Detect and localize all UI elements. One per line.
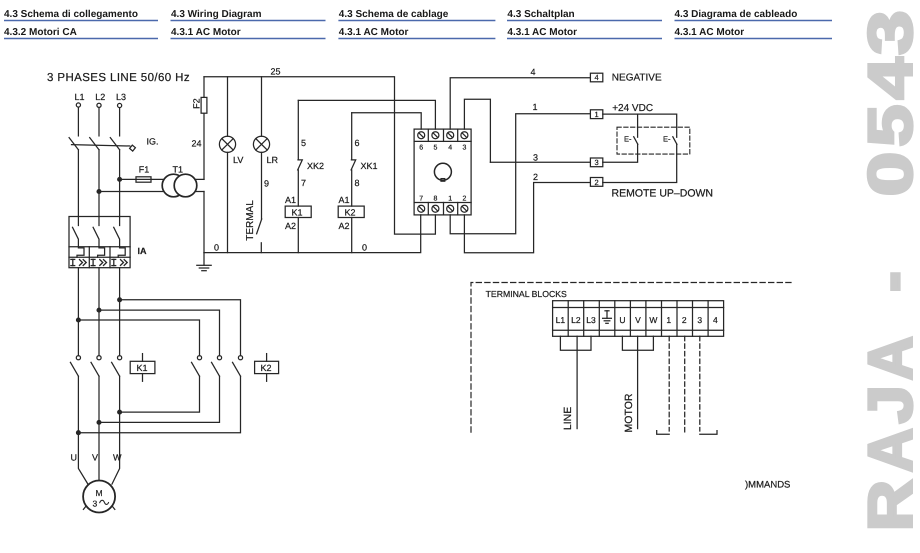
svg-text:IG.: IG. (147, 137, 159, 147)
svg-text:4: 4 (448, 144, 452, 151)
motor feet ticks (83, 506, 114, 510)
terminal blocks dashed box (471, 283, 791, 434)
svg-text:K2: K2 (261, 363, 272, 373)
relay socket center circle (434, 163, 451, 180)
node L3 fuse tap (118, 178, 122, 182)
svg-text:NEGATIVE: NEGATIVE (612, 72, 662, 83)
svg-text:2: 2 (462, 196, 466, 203)
wire L1 drop (77, 107, 79, 136)
lamp LR (253, 136, 269, 152)
contactor K2 box (255, 354, 279, 382)
header column 2 titles (171, 9, 262, 38)
wire coil K2 A2 to 0 bus (351, 218, 353, 253)
wire L3 to IA (119, 150, 121, 217)
wire 5 K1 branch upper (297, 100, 299, 159)
wire +24 to E switches (603, 114, 677, 137)
svg-text:8: 8 (355, 178, 360, 188)
svg-text:E-: E- (624, 135, 632, 144)
svg-text:V: V (92, 452, 98, 462)
svg-text:F2: F2 (192, 98, 202, 109)
motor M circle (83, 481, 115, 513)
fuse F2 body (201, 97, 207, 113)
terminal strip bottom band line (553, 329, 724, 331)
node feeder L3 (118, 298, 122, 302)
relay socket top pin numbers (419, 144, 466, 151)
wire K2 branch top (352, 113, 422, 129)
wire L3 tap to transformer primary (120, 178, 204, 180)
breaker IA magnetic trip symbols (71, 259, 127, 265)
svg-text:LV: LV (233, 155, 243, 165)
svg-text:6: 6 (355, 138, 360, 148)
svg-text:4.3.1 AC Motor: 4.3.1 AC Motor (339, 27, 409, 38)
svg-text:L3: L3 (586, 315, 596, 325)
svg-text:K1: K1 (137, 363, 148, 373)
svg-text:XK1: XK1 (361, 161, 378, 171)
svg-text:1: 1 (666, 315, 671, 325)
switch IG handle flag (130, 145, 136, 151)
svg-text:A1: A1 (285, 195, 296, 205)
contactor K2 pole contacts (192, 356, 243, 377)
svg-text:U: U (71, 452, 78, 462)
relay socket top strip line (414, 140, 471, 142)
svg-text:K2: K2 (345, 207, 356, 217)
terminal strip top band line (553, 307, 724, 309)
wire 8 XK1 to coil K2 (351, 170, 353, 206)
motor squiggle (100, 500, 109, 504)
SECTION: labels (47, 67, 790, 509)
wire L2 to IA (98, 150, 100, 217)
wire E2 to box 2 (603, 144, 677, 182)
wire L1 to IA (77, 150, 79, 217)
ground symbol (197, 253, 211, 271)
switch IG pole 2 blade (90, 138, 99, 150)
breaker IA pole 3 (114, 217, 126, 258)
wire V to motor (98, 376, 100, 480)
node feeder L2 (97, 308, 101, 312)
svg-text:4: 4 (531, 67, 536, 77)
svg-text:4: 4 (857, 57, 920, 100)
svg-text:4.3.1 AC Motor: 4.3.1 AC Motor (675, 27, 745, 38)
wire 7 XK2 to coil K1 (297, 170, 299, 206)
terminal L3 circle (118, 103, 122, 107)
svg-text:0: 0 (857, 152, 920, 196)
svg-text:M: M (96, 488, 103, 498)
svg-text:A1: A1 (339, 195, 350, 205)
transformer T1 secondary winding (174, 174, 197, 197)
wire TERMAL to 0 bus (260, 243, 262, 253)
box terminal 2 (590, 178, 602, 187)
relay socket outline (414, 129, 471, 215)
svg-text:V: V (635, 315, 641, 325)
svg-text:R: R (857, 480, 920, 531)
header column 5 underlines (675, 21, 833, 39)
contactor K1 pole contacts (70, 356, 121, 377)
breaker IA pole 1 (73, 217, 85, 258)
node W return (118, 410, 122, 414)
lamp LR riser top (261, 77, 263, 136)
relay socket top screws (418, 132, 468, 139)
svg-text:3: 3 (697, 315, 702, 325)
breaker IA row line 1 (69, 246, 130, 248)
wire feeder L3 to K2 pole c (120, 300, 241, 356)
wire IA pole3 down (119, 268, 121, 356)
wire feeder L1 to K2 pole a (78, 320, 199, 356)
svg-text:MOTOR: MOTOR (623, 393, 635, 432)
wire terminal 2 to box 2 (464, 183, 590, 253)
svg-text:A: A (857, 336, 920, 380)
svg-text:4.3 Diagrama de cableado: 4.3 Diagrama de cableado (675, 9, 798, 20)
svg-text:)MMANDS: )MMANDS (745, 480, 790, 491)
svg-text:T1: T1 (173, 165, 184, 175)
svg-text:24: 24 (192, 139, 202, 149)
wire 3 to box 3 (490, 161, 590, 163)
svg-text:XK2: XK2 (307, 161, 324, 171)
svg-text:IA: IA (138, 246, 148, 256)
wire 6 K2 branch upper (351, 113, 353, 160)
svg-text:L2: L2 (95, 92, 105, 102)
svg-text:0: 0 (362, 243, 367, 253)
svg-text:2: 2 (682, 315, 687, 325)
wire 0 bus to terminal 7 (204, 215, 421, 253)
header column 1 titles (4, 9, 138, 38)
svg-text:K1: K1 (292, 207, 303, 217)
box terminal 4 (590, 73, 602, 82)
svg-text:1: 1 (448, 196, 452, 203)
contactor K1 box (130, 354, 155, 382)
svg-text:E-: E- (663, 135, 671, 144)
SECTION: header (4, 9, 832, 38)
header column 1 underlines (4, 21, 158, 39)
svg-text:3: 3 (462, 144, 466, 151)
svg-text:4.3.1 AC Motor: 4.3.1 AC Motor (171, 27, 241, 38)
wire L2 drop (98, 108, 100, 136)
svg-text:LINE: LINE (562, 407, 574, 430)
fuse F1 (136, 177, 151, 182)
svg-text:3 PHASES LINE 50/60 Hz: 3 PHASES LINE 50/60 Hz (47, 72, 190, 84)
svg-text:L2: L2 (571, 315, 581, 325)
svg-text:3: 3 (857, 10, 920, 54)
relay socket bottom strip dividers (428, 203, 457, 215)
lamp LV riser bottom (227, 152, 229, 252)
relay socket center notch (441, 179, 445, 182)
switch IG link bar (72, 145, 130, 146)
svg-text:J: J (857, 385, 920, 424)
svg-text:8: 8 (433, 196, 437, 203)
node U return (77, 431, 81, 435)
svg-text:L1: L1 (556, 315, 566, 325)
header column 5 titles (675, 9, 798, 38)
wire K2 pole a return to W (120, 376, 200, 412)
node V return (97, 421, 101, 425)
svg-text:4.3 Schema di collegamento: 4.3 Schema di collegamento (4, 9, 138, 20)
svg-text:0: 0 (214, 243, 219, 253)
cable hook left (657, 431, 670, 435)
svg-text:TERMAL: TERMAL (245, 200, 256, 241)
SECTION: wires (69, 73, 791, 512)
svg-text:7: 7 (419, 196, 423, 203)
motor-side cable bracket (622, 336, 653, 350)
terminal strip earth glyph (603, 311, 612, 324)
dashed cable terminal 3 (699, 336, 701, 431)
header column 4 titles (507, 9, 577, 38)
svg-text:+24 VDC: +24 VDC (612, 103, 653, 114)
header column 3 underlines (338, 21, 495, 39)
svg-text:4.3.2 Motori CA: 4.3.2 Motori CA (4, 27, 77, 38)
terminal strip dividers (568, 301, 708, 337)
switch IG pole 1 blade (69, 138, 78, 150)
svg-text:5: 5 (433, 144, 437, 151)
wire K2 pole b return to V (99, 376, 220, 422)
svg-text:25: 25 (271, 67, 281, 77)
box terminal 1 (590, 110, 602, 119)
svg-text:LR: LR (267, 155, 279, 165)
svg-text:5: 5 (301, 138, 306, 148)
svg-text:6: 6 (419, 144, 423, 151)
wire K1 branch top (298, 100, 435, 129)
svg-text:9: 9 (264, 179, 269, 189)
wire K2 pole c return to U (78, 376, 240, 433)
svg-text:F1: F1 (139, 165, 150, 175)
wire U to motor (78, 376, 88, 484)
breaker IA cell dividers (89, 247, 110, 268)
header column 4 underlines (507, 21, 662, 39)
wire IA pole2 down (98, 268, 100, 356)
wire terminal 3 riser (464, 99, 490, 162)
dashed cable terminal 1 (668, 336, 670, 431)
wire LR to TERMAL switch (261, 152, 263, 219)
wire 24 riser with fuse F2 (203, 77, 205, 180)
svg-text:L1: L1 (75, 92, 85, 102)
breaker IA pole 2 (93, 217, 105, 258)
box terminal 3 (590, 158, 602, 167)
svg-text:4.3.1 AC Motor: 4.3.1 AC Motor (507, 27, 577, 38)
switch E1 blade (634, 137, 638, 145)
svg-text:4.3 Wiring Diagram: 4.3 Wiring Diagram (171, 9, 262, 20)
wire transformer bottom to 0 bus (203, 192, 205, 253)
wire L3 drop (119, 108, 121, 136)
wire feeder L2 to K2 pole b (99, 310, 220, 356)
line-side cable bracket (560, 336, 591, 350)
wire terminal 1 to +24 VDC (450, 114, 590, 234)
MOTOR cable (637, 336, 639, 428)
svg-text:7: 7 (301, 178, 306, 188)
svg-text:3: 3 (533, 152, 538, 162)
svg-text:4: 4 (713, 315, 718, 325)
svg-text:TERMINAL BLOCKS: TERMINAL BLOCKS (486, 289, 567, 299)
svg-text:4.3 Schaltplan: 4.3 Schaltplan (507, 9, 574, 20)
svg-text:4: 4 (595, 73, 599, 82)
svg-text:U: U (619, 315, 625, 325)
breaker IA row line 2 (69, 256, 130, 258)
svg-text:W: W (649, 315, 657, 325)
cable hook right (700, 431, 717, 435)
svg-text:3: 3 (93, 498, 98, 508)
svg-text:2: 2 (595, 178, 599, 187)
emergency stop dashed box (617, 127, 690, 154)
dashed cable terminal 2 (684, 336, 686, 434)
coil K1 box (285, 206, 311, 217)
wire E1 to wire 3 (603, 144, 638, 162)
node feeder L1 (77, 318, 81, 322)
terminal strip labels (556, 315, 718, 325)
wire IA pole1 down (77, 268, 79, 356)
svg-text:1: 1 (533, 102, 538, 112)
header column 3 titles (339, 9, 449, 38)
svg-text:REMOTE UP–DOWN: REMOTE UP–DOWN (612, 188, 714, 200)
terminal strip outline (553, 301, 724, 337)
switch TERMAL blade (257, 219, 262, 234)
wire terminal 4 to NEGATIVE (450, 78, 590, 129)
svg-text:A2: A2 (339, 221, 350, 231)
relay socket top strip dividers (428, 129, 457, 141)
switch XK2 blade (298, 160, 303, 170)
wire 25 bus to terminal 8 (204, 77, 435, 234)
svg-text:-: - (857, 271, 920, 292)
svg-text:A2: A2 (285, 221, 296, 231)
svg-text:A: A (857, 428, 920, 472)
svg-text:5: 5 (857, 105, 920, 147)
terminal L1 circle (76, 103, 80, 107)
switch IG pole 3 blade (110, 138, 119, 150)
coil K2 box (338, 206, 364, 217)
wire L2 tap to transformer secondary-bottom (99, 191, 204, 193)
wire coil K1 A2 to 0 bus (297, 218, 299, 253)
node L2 transformer tap (97, 190, 101, 194)
switch E2 blade (673, 137, 677, 145)
wire +24 branch to E1 (637, 114, 639, 137)
svg-text:2: 2 (533, 172, 538, 182)
LINE cable (576, 336, 578, 428)
breaker IA outline (69, 217, 130, 268)
svg-text:L3: L3 (116, 92, 126, 102)
svg-text:4.3 Schema de cablage: 4.3 Schema de cablage (339, 9, 449, 20)
wire W to motor (112, 376, 120, 484)
transformer T1 primary winding (162, 174, 185, 197)
svg-text:1: 1 (595, 110, 599, 119)
svg-text:3: 3 (595, 158, 599, 167)
lamp LV (219, 136, 235, 152)
relay socket bottom screws (418, 205, 468, 212)
switch XK1 blade (351, 160, 356, 170)
SECTION: watermark (857, 10, 920, 531)
svg-text:W: W (113, 452, 122, 462)
terminal L2 circle (97, 103, 101, 107)
relay socket bottom strip line (414, 202, 471, 204)
header column 2 underlines (171, 21, 326, 39)
lamp LV riser top (227, 77, 229, 136)
relay socket bottom pin numbers (419, 196, 466, 203)
